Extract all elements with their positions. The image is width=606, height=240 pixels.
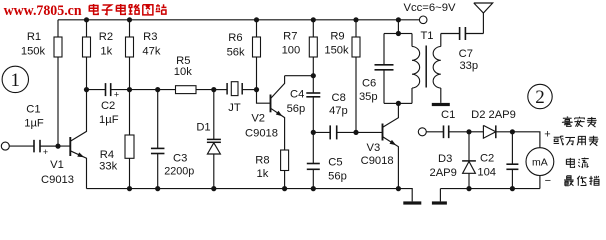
resistor R5 [176,86,197,94]
annotation 或万用表 [554,136,560,138]
svg-text:C2: C2 [480,153,494,165]
node R7/C4 [311,73,316,78]
Vcc terminal [419,16,427,24]
node R3/R4 column [127,87,132,92]
node bottom rail x=129.5 [127,186,132,191]
svg-text:C1: C1 [441,109,455,121]
svg-text:D3: D3 [438,153,452,165]
svg-text:R6: R6 [228,32,242,44]
node bottom rail x=398.4 [396,186,401,191]
svg-text:R5: R5 [176,55,190,67]
svg-text:D1: D1 [196,122,210,134]
crystal JT [214,89,227,91]
svg-text:+: + [43,147,48,157]
svg-text:JT: JT [228,102,241,114]
annotation 电流 [570,158,574,167]
svg-text:C9018: C9018 [361,155,394,167]
resistor R3 [129,20,131,37]
capacitor C5 [312,132,314,163]
node C2' bottom [510,186,515,191]
wire to V3 base [356,131,383,133]
wire meter bottom [539,176,541,189]
svg-text:C5: C5 [328,156,342,168]
svg-text:10k: 10k [174,66,192,78]
svg-text:D2: D2 [471,109,485,121]
svg-text:R3: R3 [143,31,157,43]
ground under T1 secondary [432,103,450,106]
capacitor C6 [383,34,385,65]
resistor R9 [355,20,357,37]
resistor R6 [256,20,258,37]
svg-text:V2: V2 [251,112,265,124]
svg-text:1: 1 [11,70,21,91]
node C1/R1/V1 base [55,144,60,149]
svg-text:+: + [544,129,550,141]
node top rail x=356 [353,17,358,22]
svg-text:2: 2 [535,87,545,108]
svg-text:R2: R2 [99,31,113,43]
svg-text:47k: 47k [142,46,160,58]
meter mA [526,148,554,176]
node C2 top [510,129,515,134]
wire V2 collector to R7 node [285,75,314,77]
node top rail x=313.3 [311,17,316,22]
svg-text:47p: 47p [329,105,348,117]
capacitor C4 [312,76,314,93]
svg-text:T1: T1 [420,30,433,42]
input terminal [1,142,9,150]
capacitor C2 (1uF coupling) [87,89,106,91]
svg-text:C4: C4 [290,88,304,100]
wire R6 node down to V2 base [257,90,271,104]
svg-text:33p: 33p [459,60,478,72]
svg-text:56p: 56p [328,171,347,183]
diode D2 [469,131,483,133]
capacitor C8 [313,131,330,133]
svg-text:56k: 56k [227,46,245,58]
node R6 bottom [254,87,259,92]
node top rail x=129.5 [127,17,132,22]
svg-text:V3: V3 [367,142,381,154]
svg-text:33k: 33k [99,160,117,172]
svg-text:C9013: C9013 [41,174,74,186]
svg-text:C9018: C9018 [245,127,278,139]
svg-text:C7: C7 [459,48,473,60]
node C4/C8/C5 [311,130,316,135]
diode D3 [468,132,470,161]
node C3 column [155,87,160,92]
svg-text:C1: C1 [26,103,40,115]
capacitor C3 [157,90,159,149]
ground detector [432,201,447,204]
svg-text:mA: mA [532,156,548,168]
svg-text:1k: 1k [100,46,112,58]
resistor R4 [129,90,131,135]
svg-text:C3: C3 [173,153,187,165]
node tank/V3 collector [396,101,401,106]
svg-text:−: − [545,175,551,187]
svg-text:V1: V1 [50,159,64,171]
svg-text:C6: C6 [362,77,376,89]
varactor diode D1 [213,90,215,140]
wire Vcc top rail [58,19,419,21]
resistor R7 [312,20,314,37]
capacitor C1' [426,131,443,133]
output terminal [418,128,426,136]
node marker circle 2 [528,84,552,108]
svg-text:Vcc=6~9V: Vcc=6~9V [404,2,457,14]
resistor R8 [284,149,286,151]
wire rail to ground [398,189,412,202]
svg-text:1µF: 1µF [99,114,119,126]
capacitor C1 [9,145,34,147]
node bottom rail x=313.3 [311,186,316,191]
wire C6 bottom to tank node [384,102,398,104]
node D3 top [466,129,471,134]
annotation 毫安表 [567,116,568,119]
svg-text:R4: R4 [100,149,114,161]
wire to R5 [158,89,176,91]
capacitor C2' 104 [511,132,513,164]
svg-text:R9: R9 [330,30,344,42]
svg-text:1k: 1k [256,168,268,180]
node marker circle 1 [2,66,28,92]
svg-text:2AP9: 2AP9 [489,109,516,121]
node top rail x=398.4 [396,17,401,22]
resistor R2 [86,20,88,37]
resistor R1 [57,20,59,37]
transformer T1 [398,33,412,35]
node top rail x=256.5 [254,17,259,22]
watermark red header chinese 电子电路图站 [94,4,99,14]
svg-text:R1: R1 [27,31,41,43]
svg-text:150k: 150k [324,45,349,57]
svg-text:+: + [114,90,119,100]
wire to C6 top [384,33,398,35]
node D3 bottom [466,186,471,191]
svg-text:1µF: 1µF [24,118,44,130]
svg-text:C2: C2 [101,100,115,112]
node bottom rail x=284.6 [282,186,287,191]
svg-text:2200p: 2200p [164,165,194,177]
node bottom rail x=213.8 [211,186,216,191]
wire bottom ground rail [87,188,399,190]
svg-text:C8: C8 [332,92,346,104]
svg-text:100: 100 [282,45,301,57]
svg-text:56p: 56p [287,103,306,115]
wire to V1 base [40,145,70,147]
node D1 column [211,87,216,92]
wire to detector ground [439,189,441,202]
node R9/C8/V3 base [353,130,358,135]
svg-text:104: 104 [477,167,496,179]
antenna [482,13,484,34]
wire node to C3 [130,89,158,91]
transistor V1 [69,137,71,156]
node Vcc branch [396,31,401,36]
wire to meter [512,132,540,148]
wire detector ground rail [440,188,540,190]
node V1 collector / R2 [84,87,89,92]
node top rail x=86.5 [84,17,89,22]
svg-text:www.7805.cn: www.7805.cn [4,3,82,19]
svg-text:R7: R7 [283,31,297,43]
transistor V3 [382,124,384,141]
svg-text:2AP9: 2AP9 [430,167,457,179]
capacitor C7 [441,33,460,35]
svg-text:R8: R8 [255,154,269,166]
svg-text:35p: 35p [359,91,378,103]
wire Vcc drop [397,20,399,34]
svg-text:150k: 150k [21,46,46,58]
ground main [403,201,421,204]
annotation 最低挡 [567,176,571,179]
transistor V2 [270,95,272,113]
node bottom rail x=157.7 [155,186,160,191]
